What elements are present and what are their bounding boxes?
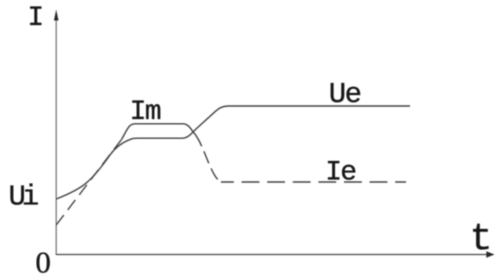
svg-text:e: e [345, 78, 362, 111]
svg-text:e: e [340, 158, 357, 189]
svg-text:I: I [27, 3, 44, 34]
svg-text:m: m [145, 97, 162, 128]
svg-text:t: t [470, 218, 493, 261]
svg-text:0: 0 [35, 245, 51, 276]
svg-text:U: U [329, 78, 346, 111]
svg-text:i: i [22, 180, 39, 213]
